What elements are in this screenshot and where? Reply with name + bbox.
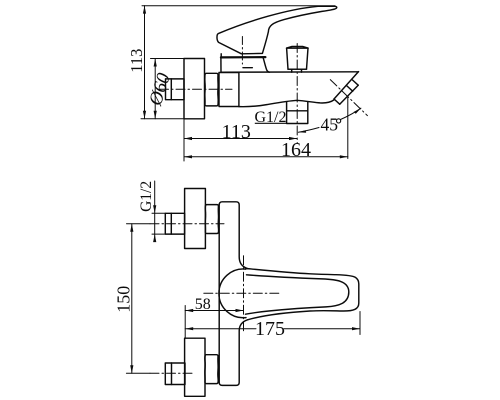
G1/2 ticks: [152, 213, 165, 234]
dim 164: [184, 156, 348, 158]
nozzle rung C: [353, 80, 359, 85]
flange top tick: [151, 58, 185, 60]
arrowheads: [130, 6, 361, 374]
45 arc arrows: [298, 130, 306, 133]
dim Ø60 line: [154, 59, 156, 119]
cartridge block: [219, 73, 239, 107]
pipe centerline: [160, 88, 233, 90]
body bar with flares: [219, 202, 247, 386]
extension handle tip: [359, 312, 361, 335]
dim G1/2 line lower: [154, 181, 156, 241]
flange (bottom inlet): [185, 338, 205, 396]
svg-text:G1/2: G1/2: [138, 181, 155, 212]
svg-text:113: 113: [127, 49, 146, 73]
nut (top inlet): [205, 205, 218, 234]
dim 45 arc: [298, 108, 361, 132]
handle lever (side view): [217, 6, 337, 54]
spout diagonal cut: [334, 72, 359, 99]
handle vertical centerline: [243, 256, 245, 332]
knob stem: [288, 69, 307, 72]
svg-text:113: 113: [222, 121, 251, 143]
150 arrows: [130, 224, 133, 232]
body top edge: [221, 71, 359, 73]
top extension line: [142, 5, 335, 7]
cap seam dash: [243, 67, 252, 69]
handle outer outline: [248, 269, 359, 320]
flange bottom tick: [141, 118, 184, 120]
handle skirt bottom: [221, 56, 266, 59]
dim 58 line: [185, 310, 243, 312]
extension wall face lower: [184, 306, 186, 339]
dim 175 line: [185, 328, 360, 330]
nut (bottom inlet): [205, 355, 218, 384]
wall flange (upper, Ø60): [184, 59, 205, 119]
nozzle centerline 45: [330, 80, 367, 116]
handle cap left edge: [220, 54, 222, 58]
svg-text:45: 45: [321, 114, 339, 134]
wall pipe collar line: [170, 79, 172, 100]
wall pipe (top inlet): [165, 213, 184, 234]
svg-text:58: 58: [195, 296, 211, 313]
pipe centerline bottom: [126, 372, 150, 374]
Ø60 arrows: [154, 59, 157, 67]
dim 113 vertical: [144, 6, 146, 119]
connection nut (upper): [205, 73, 218, 106]
nozzle rung A: [334, 99, 340, 104]
handle inner contour: [246, 275, 349, 314]
175 arrows: [185, 327, 193, 330]
handle horizontal centerline: [204, 292, 280, 294]
wall pipe (bottom inlet): [165, 363, 185, 385]
svg-text:175: 175: [255, 318, 285, 340]
extension nozzle: [347, 97, 349, 159]
flange (top inlet): [185, 189, 206, 249]
cap body sides: [220, 57, 222, 72]
wall pipe (upper): [166, 79, 185, 100]
body bottom contour: [239, 100, 335, 107]
shower outlet block: [287, 102, 308, 124]
dim 113 horizontal: [184, 138, 297, 140]
degree symbol: [337, 119, 341, 123]
nozzle (45° outlet) bottom rail: [340, 85, 359, 104]
valve centerline: [241, 37, 243, 65]
svg-text:Ø60: Ø60: [145, 70, 175, 109]
dim 150 line: [131, 224, 133, 374]
nozzle rung B: [347, 86, 353, 91]
58 arrows: [185, 309, 193, 312]
164 arrows: [184, 155, 192, 158]
svg-text:150: 150: [114, 286, 134, 313]
113h arrows: [184, 137, 192, 140]
svg-text:164: 164: [281, 139, 311, 161]
G1/2 lower arrows (outside): [153, 205, 156, 213]
cartridge circle arc: [219, 269, 246, 318]
pipe centerline top: [127, 223, 151, 225]
G1/2 underline: [255, 122, 286, 124]
shower outlet centerline: [296, 44, 298, 144]
extension wall face: [183, 119, 185, 161]
diverter knob: [287, 47, 308, 70]
113v arrows: [143, 6, 146, 14]
